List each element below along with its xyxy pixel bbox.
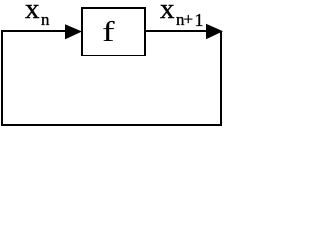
svg-text:f: f bbox=[102, 17, 116, 48]
svg-text:x: x bbox=[160, 0, 175, 25]
svg-text:+: + bbox=[184, 10, 194, 29]
svg-text:1: 1 bbox=[195, 10, 204, 30]
svg-text:n: n bbox=[41, 10, 50, 29]
svg-text:x: x bbox=[25, 0, 40, 25]
